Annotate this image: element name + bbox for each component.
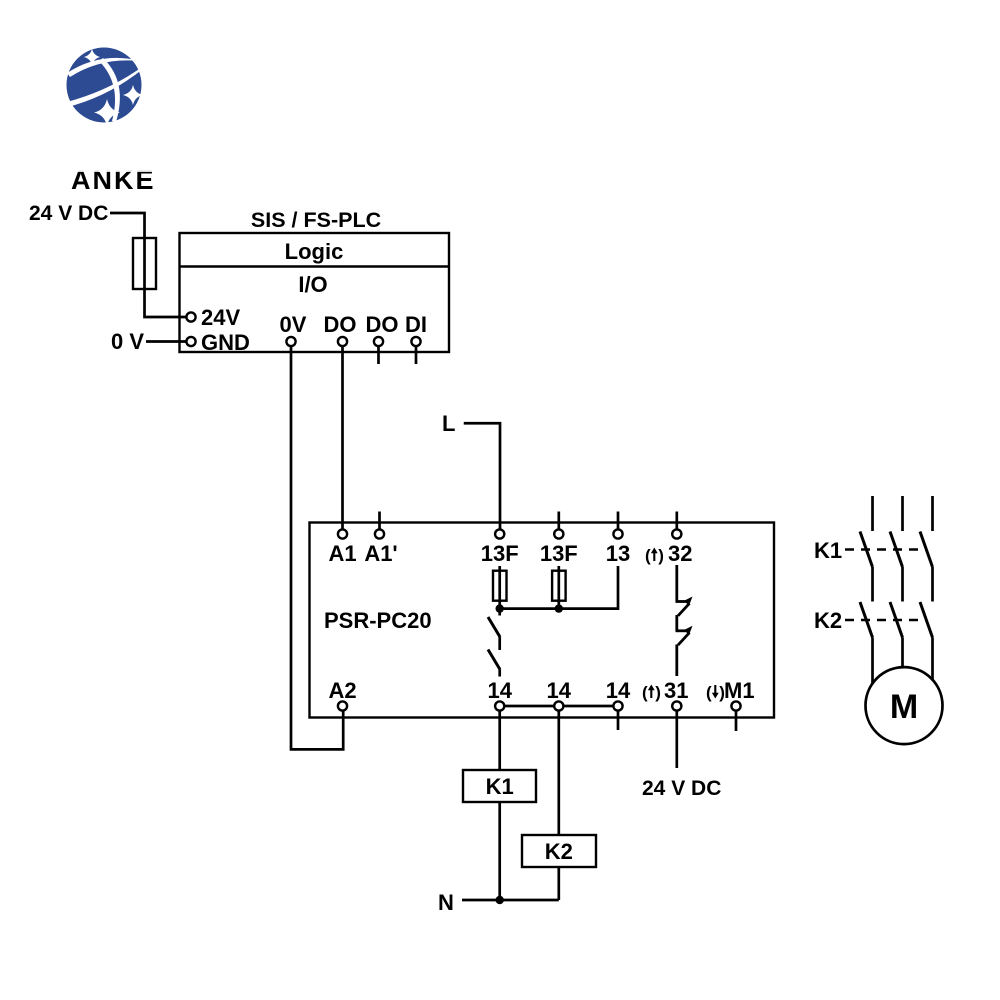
wire K2 to N	[557, 867, 560, 900]
svg-text:24 V DC: 24 V DC	[29, 202, 108, 225]
svg-text:K1: K1	[814, 538, 842, 563]
switch contact S2 (safety contact lower)	[488, 650, 500, 670]
terminal A2	[338, 701, 347, 710]
terminal DO 2 with stub	[377, 347, 380, 365]
wire 31 to 24VDC	[675, 711, 678, 768]
wire 14a to coil K1	[498, 711, 501, 770]
svg-text:14: 14	[547, 678, 572, 703]
switch contact S1 (safety contact upper)	[498, 609, 501, 616]
wire DO to A1	[341, 347, 344, 530]
svg-text:Logic: Logic	[285, 239, 344, 264]
svg-text:L: L	[442, 411, 455, 436]
svg-text:13F: 13F	[481, 541, 519, 566]
svg-text:PSR-PC20: PSR-PC20	[324, 608, 432, 633]
terminal 13F 1	[495, 529, 504, 538]
svg-text:DO: DO	[366, 312, 399, 337]
wire bus fuse outputs to 13	[500, 566, 618, 609]
svg-text:K1: K1	[486, 774, 514, 799]
internal fuse 2	[557, 566, 560, 571]
wire 0V to terminal GND	[146, 340, 186, 343]
contactor K1 contacts (3 poles)	[860, 496, 933, 602]
terminal 0V (PLC bottom)	[286, 337, 295, 346]
svg-text:N: N	[438, 890, 454, 915]
svg-text:13F: 13F	[540, 541, 578, 566]
svg-text:14: 14	[487, 678, 512, 703]
svg-text:DO: DO	[324, 312, 357, 337]
wire K1 to N junction	[498, 802, 501, 900]
svg-text:14: 14	[606, 678, 631, 703]
internal fuse 1	[498, 566, 501, 571]
svg-text:32: 32	[668, 541, 692, 566]
fuse F1	[133, 238, 156, 289]
wire N bus	[462, 899, 559, 902]
relay coil K2	[522, 835, 596, 867]
svg-text:(: (	[706, 683, 712, 702]
motor M	[866, 667, 943, 744]
terminal 24V	[186, 312, 195, 321]
node junction fuse2	[555, 604, 563, 612]
svg-text:31: 31	[664, 678, 688, 703]
svg-text:(: (	[642, 683, 648, 702]
svg-text:K2: K2	[545, 839, 573, 864]
svg-text:M: M	[890, 688, 918, 726]
NC monitoring contact upper (32 side)	[675, 565, 678, 602]
svg-text:GND: GND	[201, 330, 250, 355]
svg-text:A2: A2	[328, 678, 356, 703]
wire 24VDC to fuse F1	[110, 213, 145, 238]
wire 14b to coil K2	[557, 711, 560, 835]
wire fuse F1 to terminal 24V	[145, 289, 187, 317]
logo globe	[55, 48, 146, 127]
terminal M1 with stub	[735, 711, 738, 731]
NC monitoring contact lower (31 side)	[675, 615, 678, 631]
terminal A1	[338, 529, 347, 538]
relay coil K1	[463, 770, 536, 802]
svg-text:13: 13	[606, 541, 630, 566]
svg-text:A1': A1'	[364, 541, 397, 566]
svg-text:24V: 24V	[201, 305, 240, 330]
svg-text:M1: M1	[724, 678, 755, 703]
svg-text:I/O: I/O	[298, 272, 327, 297]
PLC box SIS / FS-PLC	[180, 233, 450, 352]
contactor K1 linkage dashed	[845, 548, 927, 550]
terminal DI with stub	[415, 347, 418, 365]
terminal DO 1	[338, 337, 347, 346]
node junction fuse1	[496, 604, 504, 612]
contactor K2 linkage dashed	[845, 619, 927, 621]
svg-text:0 V: 0 V	[111, 329, 144, 354]
node junction N	[496, 896, 504, 904]
PLC Logic divider	[180, 265, 450, 267]
svg-text:K2: K2	[814, 608, 842, 633]
svg-text:0V: 0V	[280, 312, 307, 337]
terminal 14 a	[495, 701, 504, 710]
terminal GND	[186, 337, 195, 346]
relay box PSR-PC20	[310, 523, 775, 718]
terminal 13 with stub	[617, 512, 620, 529]
terminal 32 with stub	[675, 512, 678, 529]
terminal 13F 2 with stub	[557, 512, 560, 529]
contactor K2 contacts (3 poles)	[860, 602, 933, 690]
terminal 14 b	[554, 701, 563, 710]
svg-text:): )	[655, 683, 661, 702]
svg-text:24 V DC: 24 V DC	[642, 777, 721, 800]
terminal 31	[672, 701, 681, 710]
svg-text:A1: A1	[328, 541, 356, 566]
wire L to terminal 13F	[464, 423, 500, 529]
svg-text:SIS / FS-PLC: SIS / FS-PLC	[251, 208, 381, 232]
terminal 14 c with stub	[617, 711, 620, 730]
svg-text:): )	[658, 546, 664, 565]
svg-text:(: (	[645, 546, 651, 565]
wire 14 bus	[500, 705, 618, 708]
svg-text:DI: DI	[405, 312, 427, 337]
terminal A1' with stub	[378, 512, 381, 529]
wire 0V terminal to A2 (long left run)	[291, 347, 343, 750]
